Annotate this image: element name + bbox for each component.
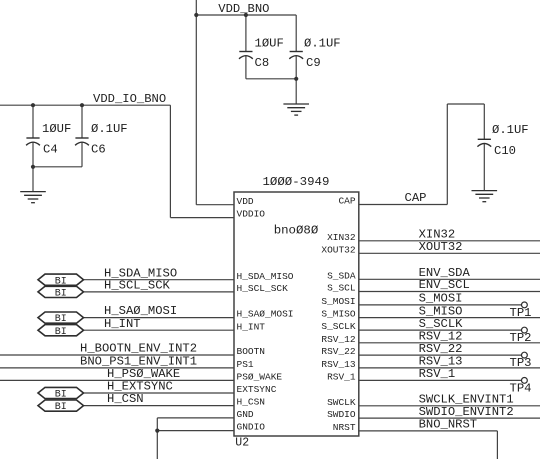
svg-text:H_INT: H_INT	[237, 321, 266, 332]
svg-text:BI: BI	[55, 390, 67, 401]
svg-text:C6: C6	[91, 142, 106, 156]
svg-text:VDDIO: VDDIO	[237, 209, 266, 220]
svg-text:TP4: TP4	[510, 381, 532, 395]
svg-text:S_SCLK: S_SCLK	[321, 321, 356, 332]
svg-text:TP2: TP2	[510, 331, 532, 345]
svg-text:Ø.1UF: Ø.1UF	[304, 37, 341, 51]
svg-text:PSØ_WAKE: PSØ_WAKE	[237, 372, 283, 383]
svg-text:H_SCL_SCK: H_SCL_SCK	[237, 283, 289, 294]
svg-text:C4: C4	[43, 142, 58, 156]
svg-text:C10: C10	[494, 144, 516, 158]
svg-text:CAP: CAP	[405, 191, 427, 205]
svg-text:VDD: VDD	[237, 196, 254, 207]
svg-text:Ø.1UF: Ø.1UF	[91, 122, 128, 136]
svg-text:BI: BI	[55, 327, 67, 338]
svg-text:S_MISO: S_MISO	[321, 309, 356, 320]
svg-text:H_CSN: H_CSN	[107, 392, 144, 406]
svg-text:CAP: CAP	[338, 196, 355, 207]
svg-text:H_BOOTN_ENV_INT2: H_BOOTN_ENV_INT2	[80, 342, 197, 356]
svg-text:TP3: TP3	[510, 356, 532, 370]
svg-text:C9: C9	[306, 56, 321, 70]
svg-text:H_SDA_MISO: H_SDA_MISO	[237, 271, 294, 282]
svg-text:BI: BI	[55, 314, 67, 325]
svg-text:RSV_13: RSV_13	[321, 359, 356, 370]
svg-text:XOUT32: XOUT32	[321, 244, 356, 255]
svg-text:H_INT: H_INT	[104, 317, 141, 331]
svg-text:EXTSYNC: EXTSYNC	[237, 384, 277, 395]
svg-text:RSV_12: RSV_12	[321, 334, 356, 345]
svg-text:ENV_SCL: ENV_SCL	[419, 278, 470, 292]
svg-text:1ØUF: 1ØUF	[42, 122, 71, 136]
svg-text:U2: U2	[235, 437, 249, 450]
svg-text:BOOTN: BOOTN	[237, 346, 266, 357]
svg-text:H_SCL_SCK: H_SCL_SCK	[104, 279, 171, 293]
svg-text:GND: GND	[237, 409, 254, 420]
svg-text:PS1: PS1	[237, 359, 254, 370]
svg-text:RSV_1: RSV_1	[419, 367, 456, 381]
svg-text:TP1: TP1	[510, 306, 532, 320]
svg-text:Ø.1UF: Ø.1UF	[492, 123, 529, 137]
svg-text:BI: BI	[55, 402, 67, 413]
svg-text:SWDIO: SWDIO	[327, 409, 356, 420]
svg-text:bnoØ8Ø: bnoØ8Ø	[274, 224, 319, 238]
svg-text:C8: C8	[255, 56, 270, 70]
svg-text:SWCLK: SWCLK	[327, 397, 356, 408]
svg-text:S_SDA: S_SDA	[327, 270, 356, 281]
svg-text:VDD_IO_BNO: VDD_IO_BNO	[93, 92, 166, 106]
svg-text:BNO_NRST: BNO_NRST	[419, 418, 478, 432]
svg-text:S_SCL: S_SCL	[327, 283, 356, 294]
svg-text:1ØØØ-3949: 1ØØØ-3949	[263, 175, 330, 189]
svg-text:GNDIO: GNDIO	[237, 422, 266, 433]
svg-text:RSV_22: RSV_22	[321, 346, 356, 357]
svg-text:BI: BI	[55, 289, 67, 300]
svg-text:H_CSN: H_CSN	[237, 397, 266, 408]
svg-text:NRST: NRST	[333, 422, 356, 433]
svg-text:VDD_BNO: VDD_BNO	[218, 2, 269, 16]
svg-text:RSV_1: RSV_1	[327, 372, 356, 383]
svg-text:S_MOSI: S_MOSI	[321, 296, 355, 307]
svg-text:H_SAØ_MOSI: H_SAØ_MOSI	[237, 309, 294, 320]
svg-text:XIN32: XIN32	[327, 232, 356, 243]
svg-text:XOUT32: XOUT32	[419, 240, 463, 254]
svg-text:1ØUF: 1ØUF	[255, 37, 284, 51]
